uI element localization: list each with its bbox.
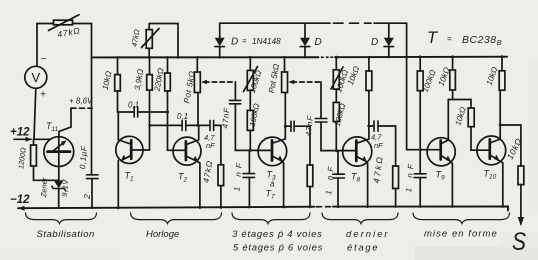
- svg-text:nF: nF: [374, 141, 383, 150]
- svg-text:1N4148: 1N4148: [252, 37, 281, 46]
- svg-text:nF: nF: [206, 141, 215, 150]
- svg-text:V: V: [31, 70, 40, 85]
- svg-text:47nF: 47nF: [304, 114, 315, 136]
- svg-text:0,1: 0,1: [128, 101, 139, 110]
- svg-text:D: D: [231, 37, 238, 48]
- svg-text:−12: −12: [10, 194, 30, 206]
- svg-text:S: S: [512, 228, 526, 256]
- svg-text:=: =: [242, 37, 247, 46]
- svg-text:2: 2: [82, 194, 92, 200]
- svg-text:mise en forme: mise en forme: [424, 229, 498, 240]
- svg-text:D: D: [315, 37, 322, 48]
- svg-text:étage: étage: [347, 243, 379, 254]
- svg-text:Stabilisation: Stabilisation: [37, 229, 95, 240]
- svg-text:0,1: 0,1: [177, 112, 188, 121]
- svg-text:+: +: [40, 90, 46, 101]
- svg-text:+12: +12: [10, 127, 30, 139]
- svg-text:D: D: [371, 37, 378, 48]
- svg-text:9,1V: 9,1V: [60, 178, 70, 197]
- svg-text:Zener: Zener: [39, 177, 49, 198]
- svg-text:5 étages ṕ 6 voies: 5 étages ṕ 6 voies: [233, 243, 323, 254]
- svg-text:=: =: [447, 35, 452, 44]
- svg-text:+ 8,6V: + 8,6V: [69, 97, 93, 106]
- svg-text:3 étages ṕ 4 voies: 3 étages ṕ 4 voies: [232, 229, 323, 240]
- svg-text:−: −: [41, 54, 47, 65]
- svg-text:BC238B: BC238B: [462, 34, 502, 47]
- svg-text:Horloge: Horloge: [146, 229, 179, 240]
- svg-text:47nF: 47nF: [221, 106, 232, 128]
- svg-text:dernier: dernier: [346, 229, 390, 240]
- svg-text:à: à: [270, 180, 275, 189]
